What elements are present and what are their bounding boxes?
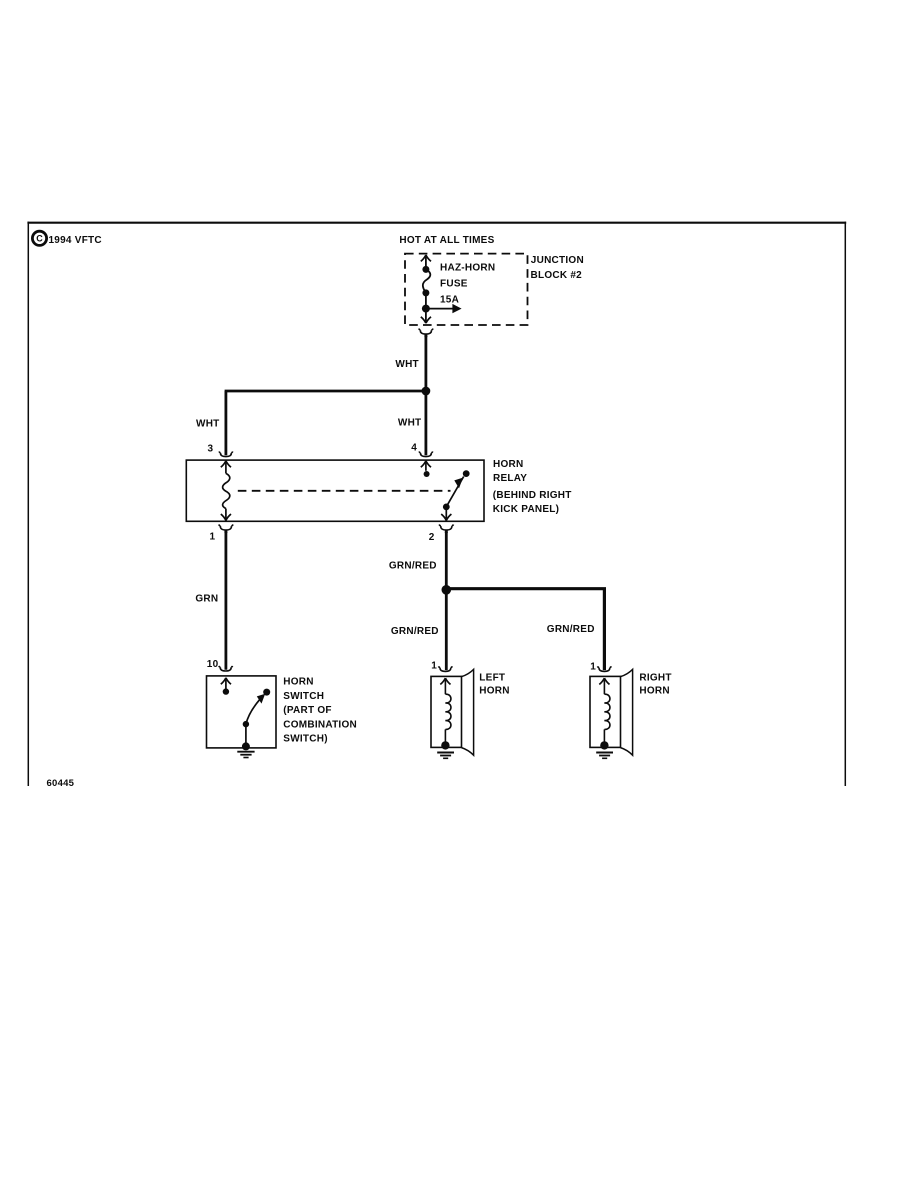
svg-text:WHT: WHT [398,418,422,429]
svg-text:HOT AT ALL TIMES: HOT AT ALL TIMES [399,235,494,246]
horn switch box [207,676,277,748]
svg-text:1: 1 [210,532,216,543]
svg-text:WHT: WHT [196,418,220,429]
junction block #2 dashed box [405,254,528,325]
svg-text:HORN: HORN [493,459,523,470]
splice junction dot [422,387,431,396]
svg-text:WHT: WHT [395,359,419,370]
svg-text:COMBINATION: COMBINATION [283,719,357,730]
svg-text:RELAY: RELAY [493,473,527,484]
relay internal dashed actuator link [238,490,451,492]
wire GRN/RED relay pin2 to splice [445,532,448,587]
wire WHT down to relay pin 4 [424,391,427,455]
left horn pin 1 connector [439,666,453,671]
svg-text:60445: 60445 [47,778,75,789]
svg-text:1: 1 [431,661,437,672]
svg-text:HAZ-HORN: HAZ-HORN [440,263,495,274]
svg-text:(BEHIND RIGHT: (BEHIND RIGHT [493,490,572,501]
relay coil (pins 3-1) [221,461,231,521]
svg-text:C: C [36,234,43,244]
branch wire with arrow to other circuits [426,304,462,313]
fuse F 15A HAZ-HORN [421,255,431,309]
copyright mark 1994 VFTC [32,231,101,246]
node: fuse output junction dot [422,305,430,313]
svg-text:2: 2 [429,532,435,543]
pin 2 connector [439,525,453,534]
svg-text:15A: 15A [440,295,459,306]
left horn coil [440,678,451,745]
svg-text:HORN: HORN [479,686,509,697]
svg-text:GRN/RED: GRN/RED [547,624,595,635]
svg-text:FUSE: FUSE [440,279,468,290]
svg-text:(PART OF: (PART OF [283,705,331,716]
svg-text:RIGHT: RIGHT [639,672,671,683]
svg-text:HORN: HORN [639,686,669,697]
svg-text:JUNCTION: JUNCTION [531,255,584,266]
wire GRN relay pin1 to horn switch [224,532,227,670]
ground at left horn [437,741,454,758]
ground at horn switch [237,742,254,757]
page frame top rule [27,222,846,224]
right horn coil [599,678,610,745]
horn switch S1 pin 10 connector [219,666,233,671]
right horn pin 1 connector [598,666,612,671]
relay K1 box [186,460,484,521]
wire horizontal WHT branch [225,390,426,393]
svg-text:4: 4 [411,443,417,454]
svg-text:SWITCH): SWITCH) [283,734,328,745]
ground at right horn [596,741,613,758]
svg-text:1: 1 [590,661,596,672]
left horn body [431,669,474,755]
svg-text:GRN: GRN [195,593,218,604]
relay switch contacts (pins 4-2) [421,461,470,521]
horn switch internal contact and arm [221,678,270,747]
svg-text:1994 VFTC: 1994 VFTC [49,235,102,246]
svg-text:SWITCH: SWITCH [283,691,324,702]
wire GRN/RED down to left horn [445,590,448,670]
svg-text:HORN: HORN [283,677,313,688]
wire WHT from junction block to splice [424,336,427,390]
svg-text:GRN/RED: GRN/RED [391,626,439,637]
svg-text:3: 3 [208,443,214,454]
svg-text:LEFT: LEFT [479,672,505,683]
pin 1 connector [219,525,233,534]
splice junction dot [442,585,452,595]
svg-text:10: 10 [207,659,219,670]
connector below junction block [419,329,433,338]
pin 3 connector [219,452,233,457]
wire horizontal GRN/RED branch to right horn [446,589,604,670]
svg-text:KICK PANEL): KICK PANEL) [493,504,559,515]
wire WHT down to relay pin 3 [224,391,227,455]
pin 4 connector [419,452,433,457]
down arrow out of junction block [421,309,431,323]
svg-text:GRN/RED: GRN/RED [389,561,437,572]
svg-text:BLOCK #2: BLOCK #2 [531,270,583,281]
right horn body [590,669,633,755]
